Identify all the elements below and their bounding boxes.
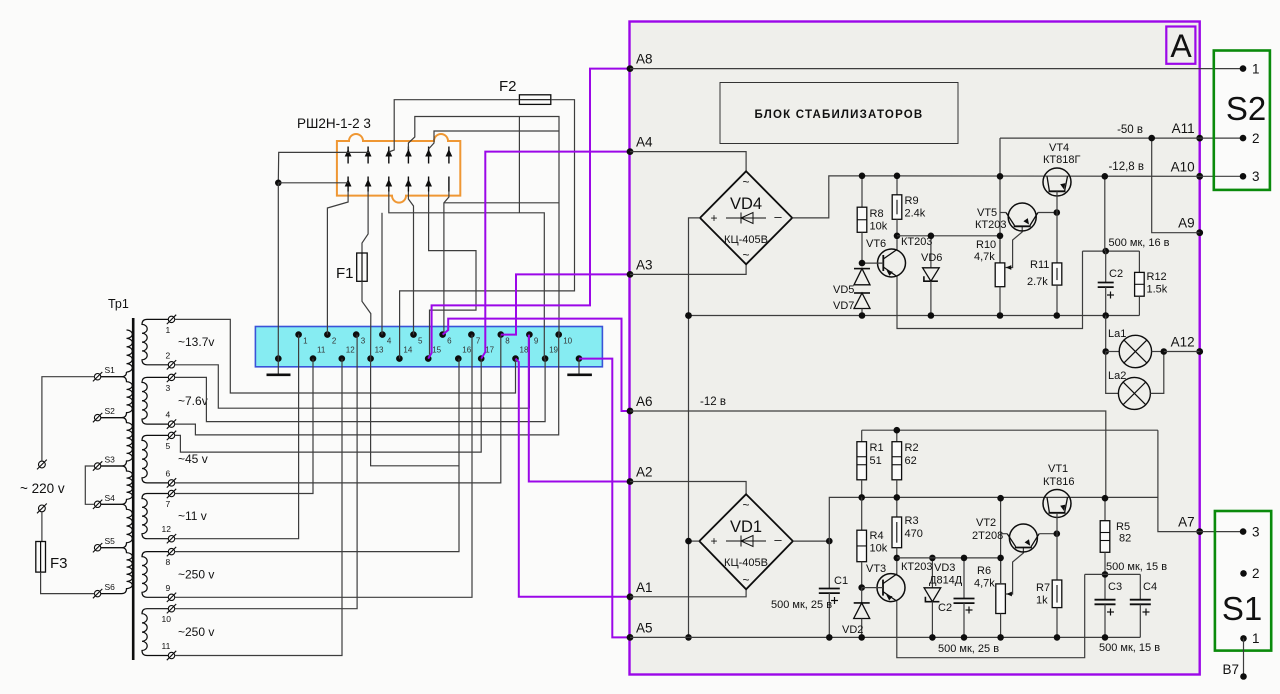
- wire tee b6 to pin10 riser: [444, 202, 559, 204]
- wire F1 to strip pin 13: [362, 281, 371, 358]
- R1/R2 top feed line from A7 net: [862, 429, 1158, 431]
- svg-text:VD3: VD3: [934, 562, 955, 574]
- C2 top node line: [1083, 250, 1140, 252]
- svg-text:A6: A6: [636, 394, 653, 409]
- svg-text:R2: R2: [905, 442, 919, 454]
- wire VT3 base lead: [862, 587, 883, 589]
- svg-text:19: 19: [549, 346, 558, 355]
- svg-text:R8: R8: [870, 208, 884, 220]
- wire T12 to strip pin 1: [175, 335, 299, 539]
- purple net A3 to strip pin 8: [501, 274, 630, 334]
- mains input terminal upper: [39, 461, 46, 468]
- wire F2 left to connector t3: [389, 100, 520, 152]
- svg-text:5: 5: [166, 441, 171, 451]
- connector pin top 3: [388, 147, 390, 164]
- node A8: [627, 65, 634, 72]
- svg-text:~: ~: [742, 248, 749, 262]
- wire junction to connector b1: [278, 182, 348, 184]
- wire rail to lamps: [1105, 316, 1107, 352]
- svg-text:2: 2: [332, 337, 337, 346]
- block title БЛОК СТАБИЛИЗАТОРОВ: [720, 83, 958, 144]
- svg-text:VD6: VD6: [921, 252, 942, 264]
- purple net A5 to strip ground: [579, 359, 630, 638]
- node A11: [1196, 135, 1203, 142]
- svg-text:6: 6: [447, 337, 452, 346]
- primary tap terminal S4: [94, 501, 100, 507]
- svg-text:11: 11: [317, 346, 326, 355]
- svg-text:+: +: [710, 211, 717, 225]
- node B7: [1243, 638, 1245, 676]
- bridge rectifier VD1: [699, 494, 793, 589]
- node A5: [627, 634, 634, 641]
- wire T1 to strip pin 18: [175, 319, 516, 393]
- svg-text:A11: A11: [1172, 121, 1195, 136]
- S2 pin 3: [1240, 173, 1247, 180]
- wire T8 to strip pin 16: [175, 359, 459, 552]
- svg-text:-50 в: -50 в: [1117, 124, 1143, 136]
- upper common rail: [689, 315, 1140, 317]
- svg-text:A3: A3: [636, 257, 653, 272]
- purple net A8 to strip pin 15: [428, 69, 630, 359]
- wire T5 to strip pin 17: [175, 359, 482, 453]
- svg-text:~11 v: ~11 v: [178, 509, 207, 523]
- svg-text:–: –: [774, 532, 782, 547]
- wire junction down to strip ground left: [277, 183, 279, 359]
- wire A2 to bridge VD1 top: [630, 482, 746, 495]
- svg-text:500 мк, 25 в: 500 мк, 25 в: [771, 599, 832, 611]
- svg-text:A8: A8: [636, 52, 653, 67]
- connector pin bottom 5: [428, 177, 430, 192]
- svg-text:VD7: VD7: [833, 300, 854, 312]
- wire VD1 minus up to mid rail: [829, 497, 1158, 541]
- svg-text:R9: R9: [905, 195, 919, 207]
- node A2: [627, 478, 634, 485]
- ground symbol right: [578, 359, 580, 374]
- wire VD7 to rail: [861, 309, 863, 316]
- connector pin bottom 2: [367, 177, 369, 192]
- wire A9 branch: [1152, 138, 1200, 233]
- wire base bus vertical x1000: [999, 138, 1001, 263]
- resistor R2: [896, 430, 898, 442]
- svg-text:R3: R3: [905, 515, 919, 527]
- svg-text:КТ203: КТ203: [975, 219, 1006, 231]
- svg-text:6: 6: [166, 468, 171, 478]
- diode VD2: [861, 588, 863, 603]
- resistor R12: [1138, 251, 1140, 272]
- svg-text:1: 1: [303, 337, 308, 346]
- transformer secondary winding ~250 v (terminals 10-11): [142, 609, 169, 656]
- wire F2 right to strip pin 14: [400, 100, 575, 359]
- svg-text:R5: R5: [1116, 521, 1130, 533]
- wire T7 to strip pin 11: [175, 359, 313, 494]
- wire VT6 base lead: [862, 262, 883, 264]
- VD4 internal diode symbol: [726, 217, 766, 219]
- wire A1 to bridge VD1 bottom: [630, 589, 746, 597]
- transformer secondary winding ~7.6v (terminals 3-4): [142, 377, 169, 424]
- svg-text:VD4: VD4: [730, 195, 762, 213]
- svg-text:КЦ-405В: КЦ-405В: [724, 557, 768, 569]
- svg-text:R11: R11: [1030, 259, 1049, 271]
- wire A10 rail tap to C2: [1104, 176, 1106, 251]
- wire T10 to strip pin 3: [175, 335, 357, 609]
- svg-text:7: 7: [166, 499, 171, 509]
- svg-text:11: 11: [162, 641, 171, 651]
- svg-text:4,7k: 4,7k: [974, 578, 995, 590]
- transistor VT6: [878, 249, 906, 277]
- svg-text:C1: C1: [834, 575, 848, 587]
- diode VD7: [854, 292, 870, 294]
- svg-text:F3: F3: [50, 555, 68, 572]
- S2 pin 2: [1240, 135, 1247, 142]
- wire R2 to R3: [896, 480, 898, 517]
- primary tap terminal S6: [94, 590, 100, 596]
- svg-text:9: 9: [166, 583, 171, 593]
- svg-text:4,7k: 4,7k: [974, 251, 995, 263]
- transformer primary winding upper section: [127, 330, 133, 372]
- fuse F3: [40, 542, 42, 573]
- svg-text:500 мк, 15 в: 500 мк, 15 в: [1106, 561, 1167, 573]
- svg-text:3: 3: [361, 337, 366, 346]
- transformer secondary winding ~11 v (terminals 7-12): [142, 494, 169, 539]
- bridge rectifier VD4: [700, 171, 792, 264]
- svg-text:17: 17: [485, 346, 494, 355]
- svg-text:R12: R12: [1147, 271, 1167, 283]
- primary tap terminal S5: [94, 545, 100, 551]
- junction line VT6 collector / VD6 / R10: [897, 236, 1000, 263]
- strip top row pins 1-10: [295, 331, 572, 345]
- S1 pin 1: [1240, 635, 1247, 642]
- svg-text:VD5: VD5: [833, 284, 854, 296]
- svg-text:A: A: [1170, 28, 1192, 64]
- transistor VT4: [1043, 168, 1071, 196]
- svg-text:2Т208: 2Т208: [972, 530, 1003, 542]
- svg-text:2: 2: [1252, 566, 1260, 581]
- svg-text:62: 62: [905, 455, 917, 467]
- svg-text:S6: S6: [105, 582, 116, 592]
- wire A7 riser: [1158, 430, 1200, 531]
- capacitor C2: [1105, 251, 1107, 282]
- svg-text:S1: S1: [1222, 590, 1262, 627]
- svg-text:–: –: [774, 209, 782, 224]
- wire VT5 collector to VT4 base chain: [1038, 212, 1057, 214]
- svg-text:12: 12: [162, 524, 172, 534]
- svg-text:S4: S4: [105, 493, 116, 503]
- wire lamps to A12: [1164, 351, 1200, 353]
- wire A6 -12v line: [630, 411, 1106, 498]
- wire T4 to strip pin 10: [175, 335, 559, 435]
- svg-text:VT5: VT5: [977, 207, 997, 219]
- svg-text:S1: S1: [105, 365, 116, 375]
- svg-text:~13.7v: ~13.7v: [178, 335, 214, 349]
- S2 pin 1: [1240, 65, 1247, 72]
- svg-text:РШ2Н-1-2 3: РШ2Н-1-2 3: [297, 116, 371, 131]
- wire A8 line across box: [630, 68, 1243, 70]
- svg-text:7: 7: [476, 337, 481, 346]
- svg-text:1: 1: [1252, 62, 1260, 77]
- lamp La2: [1106, 352, 1119, 394]
- svg-text:S2: S2: [105, 406, 116, 416]
- resistor R1: [861, 430, 863, 442]
- wire connector t5 riser to pin10 column: [429, 131, 559, 149]
- wire A7 to S1 pin 3: [1200, 531, 1243, 533]
- wire R1 to mid rail: [861, 480, 863, 498]
- svg-text:+: +: [710, 534, 717, 548]
- transformer core: [132, 318, 135, 660]
- svg-text:~: ~: [742, 498, 749, 512]
- wire A10 to S2 pin 3: [1200, 175, 1243, 177]
- svg-text:VT2: VT2: [976, 517, 996, 529]
- wire connector b2 to fuse F1: [362, 192, 368, 254]
- svg-text:~: ~: [742, 573, 749, 587]
- capacitor C2 (lower): [963, 558, 965, 599]
- connector pin top 4: [407, 147, 409, 164]
- resistor R8: [861, 176, 863, 207]
- wire T2 to strip pin 9: [175, 335, 530, 409]
- svg-text:~250 v: ~250 v: [178, 567, 214, 581]
- purple net A6 to strip pin 6: [443, 319, 630, 411]
- node A12: [1196, 348, 1203, 355]
- svg-text:VT4: VT4: [1049, 142, 1069, 154]
- wire VD1 minus to C1 node: [793, 540, 829, 542]
- mains input terminal lower: [39, 505, 46, 512]
- svg-text:VT3: VT3: [866, 563, 886, 575]
- svg-text:470: 470: [905, 528, 923, 540]
- svg-text:Д814Д: Д814Д: [929, 575, 963, 587]
- connector pin top 5: [428, 147, 430, 164]
- svg-text:4: 4: [387, 337, 392, 346]
- svg-text:9: 9: [534, 337, 539, 346]
- svg-text:~ 220 v: ~ 220 v: [20, 481, 65, 496]
- wire VD1 plus to common vertical: [689, 540, 700, 542]
- transistor VT1: [1043, 490, 1071, 518]
- node A3: [627, 271, 634, 278]
- connector pin bottom 3: [388, 177, 390, 192]
- svg-text:A2: A2: [636, 465, 653, 480]
- lamp La1: [1106, 351, 1120, 353]
- transistor VT5: [1008, 203, 1036, 231]
- resistor R7: [1056, 534, 1058, 580]
- transistor VT3: [877, 574, 905, 602]
- wire VT6 emitter to C2 top node: [897, 251, 1083, 328]
- node A9: [1196, 229, 1203, 236]
- connector pin bottom 1: [347, 177, 349, 192]
- svg-text:S3: S3: [105, 455, 116, 465]
- transformer secondary winding ~13.7v (terminals 1-2): [142, 319, 169, 364]
- wire link S3-S4: [85, 466, 94, 504]
- terminal strip (cyan junction block): [255, 327, 602, 367]
- svg-text:500 мк, 25 в: 500 мк, 25 в: [938, 643, 999, 655]
- svg-text:8: 8: [166, 557, 171, 567]
- node A4: [627, 148, 634, 155]
- svg-text:S2: S2: [1226, 90, 1266, 127]
- svg-text:F2: F2: [499, 78, 517, 95]
- svg-text:500 мк, 16 в: 500 мк, 16 в: [1108, 237, 1169, 249]
- primary tap terminal S3: [94, 463, 100, 469]
- resistor R3: [892, 517, 902, 548]
- svg-text:-12 в: -12 в: [700, 396, 726, 408]
- wire VT3 emitter to C3/C4 node: [897, 574, 1085, 657]
- S1 pin 3: [1240, 528, 1247, 535]
- transformer primary winding section 5: [95, 548, 132, 594]
- node A7: [1196, 528, 1203, 535]
- connector S1 (green): [1215, 511, 1271, 651]
- wire T6 to strip pin 8: [175, 335, 501, 483]
- svg-text:15: 15: [432, 346, 441, 355]
- wire terminal to F3: [41, 512, 43, 542]
- capacitor C3: [1095, 599, 1116, 601]
- wire VD4 minus up to -50v rail: [792, 176, 1199, 218]
- wire R11 to rail: [1056, 285, 1058, 315]
- svg-text:БЛОК СТАБИЛИЗАТОРОВ: БЛОК СТАБИЛИЗАТОРОВ: [755, 109, 924, 121]
- wire R9 to collector junction: [896, 219, 898, 249]
- svg-text:1: 1: [1252, 631, 1260, 646]
- svg-text:51: 51: [870, 455, 882, 467]
- mid rail / VT2 emitter bus vertical: [1000, 498, 1002, 584]
- svg-text:A1: A1: [636, 580, 653, 595]
- connector РШ2Н body (orange): [337, 134, 460, 203]
- svg-text:-12,8 в: -12,8 в: [1108, 161, 1144, 173]
- wire T11 to strip pin 12: [175, 359, 342, 656]
- svg-text:4: 4: [166, 410, 171, 420]
- transformer primary winding section 3: [95, 466, 132, 504]
- svg-text:VT1: VT1: [1048, 463, 1068, 475]
- connector pin top 2: [367, 147, 369, 164]
- wire R5 to C3 node: [1104, 552, 1106, 599]
- wire R8 to VT6 base: [861, 232, 863, 263]
- transformer primary winding section 2: [95, 418, 132, 466]
- wire tee b3-line to strip pin 4: [381, 213, 383, 335]
- node A1: [627, 593, 634, 600]
- potentiometer R10: [995, 263, 1005, 287]
- svg-text:F1: F1: [336, 265, 354, 282]
- svg-text:Тр1: Тр1: [108, 297, 129, 311]
- wire T3 to strip pin 19: [175, 359, 545, 422]
- wire connector b1 to strip pin 2: [327, 192, 348, 335]
- svg-text:A5: A5: [636, 620, 653, 635]
- svg-text:14: 14: [403, 346, 412, 355]
- svg-text:2.7k: 2.7k: [1027, 276, 1048, 288]
- wire R3 to VT3 collector junction: [896, 548, 898, 576]
- ground symbol left: [277, 359, 279, 374]
- svg-text:3: 3: [1252, 525, 1260, 540]
- svg-text:~250 v: ~250 v: [178, 625, 214, 639]
- svg-text:КТ203: КТ203: [901, 236, 932, 248]
- wire VT2 emitter to bus: [1001, 533, 1008, 535]
- svg-text:1.5k: 1.5k: [1147, 284, 1168, 296]
- svg-text:5: 5: [418, 337, 423, 346]
- wire R4 to VT3 base: [861, 562, 863, 588]
- primary tap terminal S1: [94, 374, 100, 380]
- svg-text:C2: C2: [938, 602, 952, 614]
- wire VD4 plus to common vertical: [689, 218, 701, 638]
- connector pin bottom 6: [448, 177, 450, 192]
- strip ground pin left: [275, 355, 282, 362]
- node A10: [1196, 173, 1203, 180]
- transistor VT2: [1009, 524, 1037, 552]
- wire R10 bottom to rail: [999, 287, 1001, 316]
- svg-text:КТ816: КТ816: [1043, 476, 1074, 488]
- capacitor C1: [828, 541, 830, 588]
- svg-text:16: 16: [462, 346, 471, 355]
- svg-text:~7.6v: ~7.6v: [178, 394, 208, 408]
- svg-text:A9: A9: [1178, 216, 1195, 231]
- svg-text:R6: R6: [977, 565, 991, 577]
- resistor R11: [1052, 263, 1062, 285]
- svg-text:A12: A12: [1171, 335, 1195, 350]
- wire T9 to strip pin 7: [175, 335, 472, 598]
- wire tee t4-line down to b3-line: [518, 117, 520, 213]
- diode VD5: [854, 268, 870, 270]
- svg-text:2.4k: 2.4k: [905, 208, 926, 220]
- transformer primary winding section 4: [95, 504, 132, 547]
- svg-text:A10: A10: [1171, 159, 1195, 174]
- svg-text:A4: A4: [636, 135, 653, 150]
- svg-text:2: 2: [1252, 131, 1260, 146]
- primary tap terminal S2: [94, 414, 100, 420]
- R6 wiper to VT2 base: [1006, 548, 1024, 595]
- wire VT5 emitter to bus: [1000, 212, 1006, 214]
- svg-text:3: 3: [166, 383, 171, 393]
- purple net A2 to strip pin 9: [529, 335, 630, 482]
- wire A3 to bridge VD4 bottom: [630, 264, 746, 274]
- svg-text:VD1: VD1: [730, 518, 762, 536]
- svg-text:~: ~: [742, 175, 749, 189]
- wire VT2 collector to VT1 base chain: [1039, 533, 1057, 535]
- wire connector b4 to strip pin 5: [408, 192, 413, 335]
- wire connector b3 to strip pin 19: [389, 192, 545, 359]
- resistor R9: [896, 176, 898, 195]
- svg-text:3: 3: [1252, 169, 1260, 184]
- transformer secondary winding ~45 v (terminals 5-6): [142, 435, 169, 483]
- stabilizer block box A background: [630, 22, 1200, 675]
- wire S1 to mains terminal: [42, 377, 95, 461]
- svg-text:A7: A7: [1178, 515, 1195, 530]
- lower common rail A5: [630, 636, 1140, 638]
- svg-text:КТ203: КТ203: [901, 561, 932, 573]
- potentiometer R6: [996, 584, 1006, 614]
- svg-text:2: 2: [166, 350, 171, 360]
- wire VT1 base down to junction: [1056, 513, 1058, 534]
- svg-text:10k: 10k: [870, 221, 888, 233]
- wire A11 to S2 pin 2: [1200, 137, 1243, 139]
- purple net A4 to strip pin 17: [481, 152, 630, 359]
- svg-text:R10: R10: [976, 239, 996, 251]
- VD1 internal diode symbol: [726, 540, 766, 542]
- resistor R5: [1104, 498, 1106, 521]
- svg-text:~45 v: ~45 v: [178, 452, 208, 466]
- svg-text:8: 8: [505, 337, 510, 346]
- strip bottom row pins 11-19: [310, 346, 559, 362]
- junction line VT3 collector / VD3 / C2 / R6: [897, 558, 1001, 584]
- svg-text:13: 13: [375, 346, 384, 355]
- svg-text:1: 1: [166, 325, 171, 335]
- svg-text:La2: La2: [1108, 370, 1126, 382]
- resistor R4: [861, 497, 863, 530]
- zener VD6: [930, 236, 932, 268]
- svg-text:R7: R7: [1036, 582, 1050, 594]
- svg-text:1k: 1k: [1036, 595, 1048, 607]
- node A6: [627, 408, 634, 415]
- svg-text:82: 82: [1119, 533, 1131, 545]
- svg-text:КТ818Г: КТ818Г: [1043, 154, 1080, 166]
- wire R6 bottom to rail: [1000, 614, 1002, 638]
- capacitor C4: [1139, 574, 1141, 599]
- connector S2 (green): [1214, 51, 1270, 190]
- connector pin top 1: [347, 147, 349, 164]
- transformer secondary winding ~250 v (terminals 8-9): [142, 552, 169, 598]
- svg-text:VD2: VD2: [842, 624, 863, 636]
- wire A4 to bridge VD4 top: [630, 152, 746, 172]
